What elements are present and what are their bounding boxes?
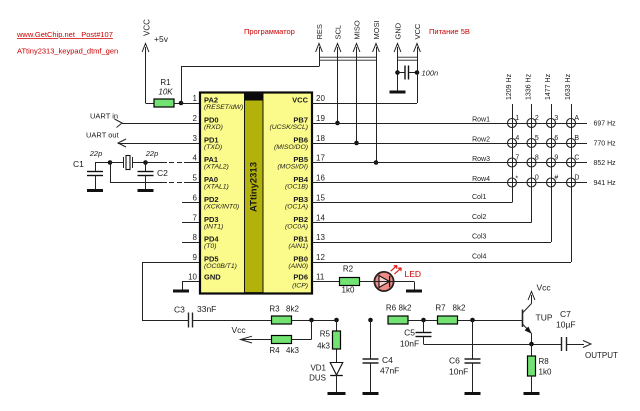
svg-text:Row4: Row4 bbox=[472, 176, 490, 183]
svg-text:ATtiny2313_keypad_dtmf_gen: ATtiny2313_keypad_dtmf_gen bbox=[17, 47, 118, 56]
keypad button 4 bbox=[508, 135, 520, 148]
svg-text:UART out: UART out bbox=[86, 131, 120, 140]
svg-text:C: C bbox=[574, 155, 579, 162]
svg-text:10K: 10K bbox=[158, 88, 173, 97]
keypad button C bbox=[567, 155, 580, 168]
wire pin 8 stub bbox=[182, 242, 199, 244]
capacitor C6 10nF bbox=[449, 320, 481, 392]
node VCC cap junction bbox=[415, 70, 420, 75]
ground LED bbox=[406, 290, 422, 293]
keypad column line 3 label 1477 Hz bbox=[545, 73, 552, 242]
svg-text:(RESET/dW): (RESET/dW) bbox=[204, 104, 243, 111]
svg-text:47nF: 47nF bbox=[380, 366, 399, 376]
svg-text:10µF: 10µF bbox=[556, 320, 576, 330]
svg-text:C4: C4 bbox=[382, 355, 393, 365]
Vcc arrow left (R4) bbox=[232, 325, 272, 343]
capacitor C2 22p bbox=[138, 149, 169, 190]
ground VD1 bbox=[328, 392, 346, 395]
diode VD1 DUS bbox=[309, 363, 343, 393]
svg-text:4k3: 4k3 bbox=[317, 342, 330, 351]
svg-text:6: 6 bbox=[193, 194, 198, 203]
svg-text:VD1: VD1 bbox=[310, 364, 326, 373]
keypad button * bbox=[508, 175, 519, 187]
svg-text:2: 2 bbox=[193, 114, 198, 123]
svg-text:(MISO/DO): (MISO/DO) bbox=[274, 144, 308, 151]
svg-text:15: 15 bbox=[316, 194, 325, 203]
svg-text:C5: C5 bbox=[404, 328, 415, 338]
svg-text:6: 6 bbox=[554, 135, 558, 142]
node R5 top bbox=[334, 318, 339, 323]
svg-text:RES: RES bbox=[315, 24, 324, 39]
keypad button 5 bbox=[527, 135, 539, 148]
svg-text:1336 Hz: 1336 Hz bbox=[526, 73, 533, 100]
svg-text:22p: 22p bbox=[145, 149, 159, 158]
IC pin 8 label PD4 bbox=[193, 233, 220, 250]
programmer arrow SCL bbox=[334, 25, 343, 52]
svg-text:*: * bbox=[515, 175, 518, 182]
svg-text:852 Hz: 852 Hz bbox=[594, 160, 617, 167]
programmer arrow VCC bbox=[413, 23, 422, 52]
svg-text:13: 13 bbox=[316, 233, 325, 242]
IC pin 15 label PB3 bbox=[285, 194, 325, 211]
transistor TUP bbox=[523, 297, 553, 345]
svg-text:17: 17 bbox=[316, 154, 325, 163]
svg-text:R7: R7 bbox=[435, 304, 446, 313]
keypad column line 4 label 1633 Hz bbox=[565, 73, 572, 262]
programmer arrow MOSI bbox=[372, 20, 381, 52]
svg-text:C7: C7 bbox=[560, 309, 571, 319]
svg-text:(XTAL2): (XTAL2) bbox=[204, 164, 229, 171]
svg-text:C6: C6 bbox=[449, 356, 460, 366]
keypad button B bbox=[567, 135, 580, 148]
keypad button 6 bbox=[547, 135, 559, 148]
svg-text:(OC0A): (OC0A) bbox=[285, 224, 308, 231]
svg-text:(OC1A): (OC1A) bbox=[285, 204, 308, 211]
svg-text:0: 0 bbox=[535, 175, 539, 182]
svg-text:Col1: Col1 bbox=[472, 194, 487, 201]
resistor R1 10K bbox=[146, 78, 200, 107]
resistor R4 4k3 bbox=[269, 320, 311, 355]
IC pin 19 label PB7 bbox=[269, 114, 325, 131]
svg-text:VCC: VCC bbox=[143, 19, 152, 36]
wire VCC to pin 20 bbox=[312, 47, 418, 104]
wire to pin 4 with dashes bbox=[146, 162, 200, 164]
svg-text:12: 12 bbox=[316, 253, 325, 262]
wire LED to ground bbox=[393, 282, 414, 291]
svg-text:Row1: Row1 bbox=[472, 117, 490, 124]
svg-text:16: 16 bbox=[316, 174, 325, 183]
svg-text:8k2: 8k2 bbox=[399, 304, 412, 313]
op IC U1 ATtiny2313 body bbox=[200, 93, 312, 294]
keypad button 3 bbox=[547, 115, 559, 128]
svg-text:Row3: Row3 bbox=[472, 156, 490, 163]
capacitor 100n bbox=[398, 66, 439, 80]
svg-text:(RXD): (RXD) bbox=[204, 124, 223, 131]
keypad button 8 bbox=[527, 155, 539, 168]
svg-text:8k2: 8k2 bbox=[453, 304, 466, 313]
svg-text:LED: LED bbox=[405, 269, 422, 279]
svg-text:3: 3 bbox=[554, 115, 558, 122]
node R6/R7/C5 junction bbox=[421, 318, 426, 323]
svg-text:DUS: DUS bbox=[309, 374, 326, 383]
ground pin 10 bbox=[173, 290, 189, 293]
svg-text:www.GetChip.net Post#107: www.GetChip.net Post#107 bbox=[16, 30, 113, 39]
svg-text:(UCSK/SCL): (UCSK/SCL) bbox=[269, 124, 308, 131]
svg-text:9: 9 bbox=[554, 155, 558, 162]
wire pin 7 stub bbox=[182, 222, 199, 224]
svg-text:22p: 22p bbox=[89, 149, 103, 158]
svg-text:8: 8 bbox=[193, 233, 198, 242]
svg-text:1477 Hz: 1477 Hz bbox=[545, 73, 552, 100]
svg-text:8: 8 bbox=[535, 155, 539, 162]
IC pin 16 label PB4 bbox=[285, 174, 325, 191]
svg-text:4: 4 bbox=[193, 154, 198, 163]
node reset junction bbox=[179, 101, 184, 106]
node XTAL2 left junction bbox=[108, 160, 113, 165]
svg-text:1k0: 1k0 bbox=[539, 368, 552, 377]
ground programmer bbox=[390, 91, 406, 94]
svg-text:PD6: PD6 bbox=[293, 273, 308, 282]
wire Row3 (pin 17) bbox=[312, 156, 616, 167]
IC pin 3 label PD1 bbox=[193, 134, 223, 151]
IC pin 6 label PD2 bbox=[193, 194, 240, 211]
wire SCL to pin 19 bbox=[337, 47, 339, 123]
programmer arrow RES bbox=[315, 24, 324, 52]
IC pin 13 label PB1 bbox=[288, 233, 325, 250]
svg-text:Программатор: Программатор bbox=[244, 27, 295, 36]
svg-text:+5v: +5v bbox=[154, 34, 169, 44]
keypad column line 1 label 1209 Hz bbox=[506, 73, 513, 202]
svg-text:R5: R5 bbox=[320, 330, 331, 339]
svg-text:MISO: MISO bbox=[353, 20, 362, 39]
svg-text:1633 Hz: 1633 Hz bbox=[565, 73, 572, 100]
LED VD2 bbox=[374, 266, 421, 292]
keypad column line 2 label 1336 Hz bbox=[526, 73, 533, 222]
svg-text:1: 1 bbox=[515, 115, 519, 122]
svg-text:10nF: 10nF bbox=[449, 367, 468, 377]
svg-text:(OC1B): (OC1B) bbox=[285, 184, 308, 191]
svg-text:SCL: SCL bbox=[334, 25, 343, 40]
svg-text:R6: R6 bbox=[386, 304, 397, 313]
resistor R3 8k2 bbox=[269, 305, 336, 325]
wire MISO to pin 18 bbox=[356, 47, 358, 143]
svg-text:(XCK/INT0): (XCK/INT0) bbox=[204, 204, 239, 211]
svg-text:R1: R1 bbox=[160, 78, 171, 87]
node emitter junction bbox=[529, 342, 534, 347]
svg-text:941 Hz: 941 Hz bbox=[594, 180, 617, 187]
power Vcc arrow transistor bbox=[528, 283, 551, 304]
wire Col4 (pin 12) bbox=[312, 254, 571, 263]
svg-text:(ICP): (ICP) bbox=[292, 283, 308, 290]
capacitor C5 10nF bbox=[400, 320, 432, 349]
svg-text:5: 5 bbox=[193, 174, 198, 183]
svg-text:3: 3 bbox=[193, 134, 198, 143]
keypad button 9 bbox=[547, 155, 559, 168]
ground C6 bbox=[465, 392, 481, 395]
capacitor C3 33nF bbox=[142, 304, 272, 328]
keypad button D bbox=[567, 175, 580, 188]
svg-text:D: D bbox=[574, 175, 579, 182]
keypad button 7 bbox=[508, 155, 520, 168]
wire emitter rail bbox=[424, 344, 562, 346]
svg-text:1: 1 bbox=[193, 94, 198, 103]
svg-text:2: 2 bbox=[535, 115, 539, 122]
svg-text:4k3: 4k3 bbox=[286, 346, 299, 355]
svg-text:(TXD): (TXD) bbox=[204, 144, 222, 151]
svg-text:VCC: VCC bbox=[413, 23, 422, 39]
svg-text:7: 7 bbox=[193, 214, 198, 223]
resistor R8 1k0 bbox=[528, 344, 552, 392]
svg-text:ATtiny2313: ATtiny2313 bbox=[249, 162, 260, 212]
svg-text:VCC: VCC bbox=[292, 96, 308, 105]
svg-text:C2: C2 bbox=[157, 168, 168, 178]
resistor R5 4k3 bbox=[317, 320, 340, 363]
node R3/R4 junction bbox=[309, 318, 314, 323]
svg-text:(AIN1): (AIN1) bbox=[288, 243, 308, 250]
wire Row2 (pin 18) bbox=[312, 137, 616, 148]
svg-text:19: 19 bbox=[316, 114, 325, 123]
svg-text:4: 4 bbox=[515, 135, 519, 142]
svg-text:UART in: UART in bbox=[90, 112, 118, 121]
IC pin 1 label PA2 bbox=[193, 94, 244, 111]
svg-text:(T0): (T0) bbox=[204, 243, 216, 250]
IC pin 5 label PA0 bbox=[193, 174, 229, 191]
wire Col2 (pin 14) bbox=[312, 214, 532, 223]
node SCL/PB7 bbox=[335, 121, 340, 126]
wire to pin 5 with dashes bbox=[110, 163, 199, 183]
IC pin 14 label PB2 bbox=[285, 214, 325, 231]
wire Col1 (pin 15) bbox=[312, 194, 512, 203]
svg-text:7: 7 bbox=[515, 155, 519, 162]
svg-text:5: 5 bbox=[535, 135, 539, 142]
UART out label and wire (pin 3) bbox=[86, 131, 199, 148]
svg-text:100n: 100n bbox=[422, 69, 439, 78]
svg-text:9: 9 bbox=[193, 253, 198, 262]
capacitor C4 47nF bbox=[363, 320, 400, 392]
keypad button 1 bbox=[508, 115, 520, 128]
connector bar left bbox=[319, 56, 376, 58]
resistor R2 1k0 bbox=[312, 265, 375, 295]
svg-text:18: 18 bbox=[316, 134, 325, 143]
svg-text:1209 Hz: 1209 Hz bbox=[506, 73, 513, 100]
keypad button A bbox=[567, 115, 580, 128]
svg-text:770 Hz: 770 Hz bbox=[594, 141, 617, 148]
svg-text:697 Hz: 697 Hz bbox=[594, 121, 617, 128]
svg-text:R2: R2 bbox=[343, 265, 354, 274]
resistor R7 8k2 bbox=[435, 304, 522, 325]
wire Row1 (pin 19) bbox=[312, 117, 616, 128]
keypad button 2 bbox=[527, 115, 539, 128]
svg-text:#: # bbox=[554, 175, 558, 182]
svg-text:TUP: TUP bbox=[536, 313, 553, 323]
svg-text:20: 20 bbox=[316, 94, 325, 103]
svg-text:B: B bbox=[574, 135, 579, 142]
IC pin 12 label PB0 bbox=[288, 253, 325, 270]
wire RES to reset node bbox=[181, 47, 320, 103]
IC pin 20 label VCC bbox=[292, 94, 325, 105]
crystal ZQ1 bbox=[110, 156, 146, 170]
node R7/C6 junction bbox=[470, 318, 475, 323]
IC pin 9 label PD5 bbox=[193, 253, 237, 270]
node GND cap junction bbox=[395, 70, 400, 75]
svg-text:Col3: Col3 bbox=[472, 234, 487, 241]
svg-text:Vcc: Vcc bbox=[537, 283, 552, 293]
svg-text:GND: GND bbox=[204, 273, 221, 282]
svg-text:MOSI: MOSI bbox=[372, 20, 381, 39]
svg-text:GND: GND bbox=[394, 22, 403, 39]
IC pin 4 label PA1 bbox=[193, 154, 229, 171]
svg-text:OUTPUT: OUTPUT bbox=[585, 351, 618, 360]
wire pin 9 to bottom rail bbox=[142, 262, 199, 320]
node XTAL1 right junction bbox=[143, 160, 148, 165]
node C4 top bbox=[368, 318, 373, 323]
IC pin 17 label PB5 bbox=[277, 154, 325, 171]
resistor R6 8k2 bbox=[386, 304, 438, 325]
wire GND down bbox=[397, 47, 399, 91]
svg-text:A: A bbox=[574, 115, 579, 122]
svg-text:8k2: 8k2 bbox=[286, 305, 299, 314]
ground C4 bbox=[363, 392, 379, 395]
ground under C1 bbox=[87, 189, 103, 192]
svg-text:10: 10 bbox=[188, 273, 197, 282]
svg-text:C3: C3 bbox=[174, 305, 185, 315]
svg-text:(MOSI/DI): (MOSI/DI) bbox=[277, 164, 308, 171]
keypad button # bbox=[547, 175, 559, 188]
svg-text:R3: R3 bbox=[269, 305, 280, 314]
wire pin 10 to ground bbox=[182, 282, 199, 291]
svg-text:R4: R4 bbox=[269, 346, 280, 355]
IC pin 11 label PD6 bbox=[292, 273, 325, 290]
IC pin 2 label PD0 bbox=[193, 114, 223, 131]
svg-text:Col4: Col4 bbox=[472, 254, 487, 261]
wire MOSI to pin 17 bbox=[376, 47, 378, 163]
keypad button 0 bbox=[527, 175, 539, 188]
wire Row4 (pin 16) bbox=[312, 176, 616, 187]
IC pin 10 label GND bbox=[188, 273, 221, 282]
svg-text:10nF: 10nF bbox=[400, 339, 419, 349]
OUTPUT arrow bbox=[567, 341, 619, 361]
svg-text:Vcc: Vcc bbox=[232, 325, 247, 335]
svg-text:C1: C1 bbox=[73, 159, 84, 169]
svg-text:Питание 5В: Питание 5В bbox=[429, 27, 470, 36]
svg-text:33nF: 33nF bbox=[197, 304, 216, 314]
svg-text:(INT1): (INT1) bbox=[204, 224, 223, 231]
wire pin 6 stub bbox=[182, 202, 199, 204]
node MISO/PB6 bbox=[354, 141, 359, 146]
svg-text:11: 11 bbox=[316, 273, 325, 282]
svg-text:14: 14 bbox=[316, 214, 325, 223]
connector bar right bbox=[398, 56, 418, 58]
svg-text:(OC0B/T1): (OC0B/T1) bbox=[204, 263, 237, 270]
IC pin 18 label PB6 bbox=[274, 134, 325, 151]
IC pin 7 label PD3 bbox=[193, 214, 224, 231]
capacitor C7 10uF bbox=[556, 309, 576, 351]
programmer arrow MISO bbox=[353, 20, 362, 52]
UART in label and wire (pin 2) bbox=[90, 112, 199, 128]
capacitor C1 22p bbox=[73, 149, 110, 190]
power VCC +5v arrow bbox=[142, 19, 169, 103]
svg-text:(XTAL1): (XTAL1) bbox=[204, 184, 229, 191]
svg-text:Row2: Row2 bbox=[472, 137, 490, 144]
ground under C2 bbox=[138, 189, 154, 192]
ground R8 bbox=[524, 392, 540, 395]
svg-text:Col2: Col2 bbox=[472, 214, 487, 221]
node MOSI/PB5 bbox=[374, 160, 379, 165]
svg-text:1k0: 1k0 bbox=[342, 286, 355, 295]
svg-text:(AIN0): (AIN0) bbox=[288, 263, 308, 270]
svg-text:R8: R8 bbox=[539, 357, 550, 366]
wire Col3 (pin 13) bbox=[312, 234, 551, 243]
programmer arrow GND bbox=[394, 22, 403, 52]
